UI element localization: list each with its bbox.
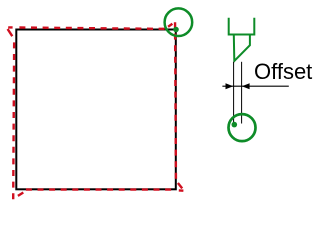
blade tip dot — [232, 122, 238, 128]
toolpath bottom-right corner diagonal dash — [178, 183, 182, 188]
toolpath bottom-right overshoot dash — [179, 189, 184, 192]
right dimension arrowhead — [242, 83, 250, 89]
left dimension arrowhead — [226, 83, 234, 89]
toolpath left edge (red dashed) — [13, 37, 14, 199]
toolpath top edge (red dashed) — [19, 28, 166, 29]
holder center axis line — [241, 62, 243, 124]
toolpath top-right corner diagonal dash — [168, 24, 172, 27]
blade — [234, 35, 250, 62]
toolpath bottom-left corner diagonal dash — [18, 193, 23, 196]
blade tip rotation circle — [229, 114, 256, 141]
toolpath right edge (red dashed) — [174, 22, 177, 181]
blade holder body U — [229, 18, 255, 35]
dimension line — [222, 85, 288, 87]
toolpath top-left overshoot dash — [8, 26, 12, 28]
toolpath bottom edge (red dashed) — [26, 188, 174, 190]
toolpath top-left corner diagonal dash — [8, 29, 13, 36]
blade tip dot at start corner — [173, 27, 179, 33]
blade tip axis line — [233, 62, 235, 125]
svg-text:Offset: Offset — [254, 59, 312, 84]
tool holder circle at start corner — [165, 8, 193, 36]
square workpiece outline — [16, 30, 176, 190]
